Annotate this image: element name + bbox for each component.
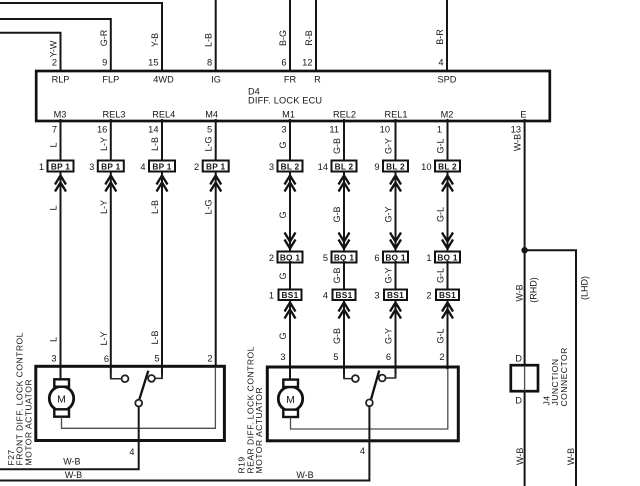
wire col8 BQ1 to BS1 <box>447 263 449 290</box>
connector J4 junction box <box>511 365 538 391</box>
svg-text:4: 4 <box>140 162 145 172</box>
svg-text:5: 5 <box>323 253 328 263</box>
svg-text:4: 4 <box>323 291 328 301</box>
svg-text:G-B: G-B <box>332 328 342 344</box>
svg-text:G-L: G-L <box>436 268 446 283</box>
wire SPD feed from top <box>446 0 448 71</box>
svg-text:9: 9 <box>102 58 107 68</box>
svg-text:W-B: W-B <box>515 448 525 465</box>
svg-text:1: 1 <box>269 291 274 301</box>
svg-text:BP 1: BP 1 <box>51 161 70 171</box>
svg-text:L-B: L-B <box>150 137 160 151</box>
wire col7 BQ1 to BS1 <box>395 263 397 290</box>
label F27 FRONT DIFF LOCK CONTROL MOTOR ACTUATOR <box>6 332 34 465</box>
svg-text:14: 14 <box>318 162 328 172</box>
svg-text:R-B: R-B <box>304 30 314 46</box>
svg-text:16: 16 <box>97 125 107 135</box>
svg-text:E: E <box>520 109 526 119</box>
wire col5 BL2 to BQ1 <box>289 172 291 252</box>
connector BQ1 col5 <box>278 252 303 263</box>
svg-text:MOTOR ACTUATOR: MOTOR ACTUATOR <box>23 379 33 466</box>
svg-text:M2: M2 <box>441 109 454 119</box>
switch lever <box>139 371 148 400</box>
wire FLP feed from left edge <box>0 19 111 71</box>
svg-text:L-Y: L-Y <box>99 331 109 345</box>
svg-text:MOTOR ACTUATOR: MOTOR ACTUATOR <box>254 387 264 474</box>
svg-text:BS1: BS1 <box>336 290 353 300</box>
svg-text:FR: FR <box>284 74 297 84</box>
wire col2 BP1 to actuator <box>110 172 112 379</box>
svg-text:L: L <box>49 142 59 147</box>
svg-text:DIFF. LOCK ECU: DIFF. LOCK ECU <box>248 95 322 105</box>
svg-text:9: 9 <box>374 162 379 172</box>
wire M3 to BP1 <box>60 119 62 161</box>
svg-text:L-Y: L-Y <box>99 200 109 214</box>
svg-text:3: 3 <box>374 291 379 301</box>
svg-text:L: L <box>49 205 59 210</box>
svg-text:5: 5 <box>154 354 159 364</box>
svg-text:M3: M3 <box>54 109 67 119</box>
box front actuator F27 <box>36 366 225 440</box>
svg-text:7: 7 <box>52 125 57 135</box>
wire col1 BP1 to actuator <box>60 172 62 382</box>
svg-text:6: 6 <box>281 58 286 68</box>
svg-text:BL 2: BL 2 <box>335 161 354 171</box>
connector BP1 col2 <box>98 161 124 172</box>
svg-text:W-B: W-B <box>296 470 313 480</box>
contact circle left <box>122 375 129 382</box>
svg-text:10: 10 <box>380 125 390 135</box>
svg-text:3: 3 <box>89 162 94 172</box>
svg-text:L-Y: L-Y <box>99 137 109 151</box>
connector BP1 col3 <box>149 161 175 172</box>
svg-text:L-B: L-B <box>150 200 160 214</box>
svg-text:3: 3 <box>281 125 286 135</box>
arrows up below row1 <box>55 176 453 192</box>
svg-text:L-B: L-B <box>150 330 160 344</box>
label R19 REAR DIFF LOCK CONTROL MOTOR ACTUATOR <box>237 346 265 473</box>
svg-text:BP 1: BP 1 <box>152 161 171 171</box>
label J4 JUNCTION CONNECTOR <box>542 347 570 406</box>
svg-text:G-B: G-B <box>332 138 342 154</box>
svg-text:(LHD): (LHD) <box>580 276 590 300</box>
connector BS1 col6 <box>333 290 356 301</box>
svg-text:G-L: G-L <box>436 138 446 153</box>
svg-text:G-Y: G-Y <box>384 138 394 154</box>
svg-text:RLP: RLP <box>52 74 70 84</box>
wire RLP feed from left edge <box>0 33 61 71</box>
wire E W-B down <box>524 119 526 365</box>
wire REL3 to BP1 <box>110 119 112 161</box>
svg-text:G-R: G-R <box>99 29 109 46</box>
svg-text:D: D <box>515 396 522 406</box>
svg-text:G-B: G-B <box>332 267 342 283</box>
svg-text:R: R <box>314 74 321 84</box>
svg-text:15: 15 <box>148 58 158 68</box>
svg-text:6: 6 <box>104 354 109 364</box>
wire REL1 to BL2 <box>395 119 397 161</box>
svg-text:IG: IG <box>211 74 221 84</box>
svg-text:BS1: BS1 <box>282 290 299 300</box>
wire M4 to BP1 <box>215 119 217 161</box>
svg-text:REL2: REL2 <box>333 109 356 119</box>
svg-text:5: 5 <box>207 125 212 135</box>
connector BL2 col6 <box>332 161 357 172</box>
svg-text:M1: M1 <box>282 109 295 119</box>
svg-text:L: L <box>49 337 59 342</box>
svg-text:BP 1: BP 1 <box>101 161 120 171</box>
svg-text:3: 3 <box>269 162 274 172</box>
svg-text:G: G <box>278 141 288 148</box>
contact jog pin6 rear <box>386 374 396 378</box>
connector BP1 col4 <box>203 161 229 172</box>
svg-text:5: 5 <box>333 352 338 362</box>
switch rear actuator <box>344 371 396 407</box>
svg-text:REL1: REL1 <box>385 109 408 119</box>
switch front actuator <box>111 371 162 407</box>
wire col3 BP1 to actuator <box>161 172 163 379</box>
svg-text:2: 2 <box>269 253 274 263</box>
svg-text:4WD: 4WD <box>153 74 174 84</box>
svg-text:(RHD): (RHD) <box>529 277 539 303</box>
svg-text:2: 2 <box>194 162 199 172</box>
wire E below J4 <box>524 391 526 486</box>
svg-text:4: 4 <box>129 447 134 457</box>
svg-text:M4: M4 <box>205 109 218 119</box>
svg-text:L-G: L-G <box>204 136 214 151</box>
svg-text:BS1: BS1 <box>387 290 404 300</box>
svg-text:6: 6 <box>386 352 391 362</box>
svg-text:G: G <box>278 332 288 339</box>
svg-text:BS1: BS1 <box>439 290 456 300</box>
svg-text:Y-B: Y-B <box>150 33 160 47</box>
svg-text:G-B: G-B <box>332 206 342 222</box>
wire R feed from top <box>315 0 317 71</box>
svg-text:B-G: B-G <box>278 30 288 46</box>
svg-text:BQ 1: BQ 1 <box>385 252 406 262</box>
connector BL2 col5 <box>278 161 303 172</box>
svg-text:BL 2: BL 2 <box>281 161 300 171</box>
wire REL2 to BL2 <box>343 119 345 161</box>
svg-text:B-R: B-R <box>435 29 445 45</box>
wire through J4 <box>524 366 526 391</box>
pivot circle <box>135 400 142 407</box>
arrows down above BQ1 <box>285 233 454 249</box>
wire col6 BQ1 to BS1 <box>343 263 345 290</box>
svg-text:W-B: W-B <box>514 284 524 301</box>
switch lever rear <box>371 371 379 400</box>
wire LHD branch <box>525 250 576 486</box>
wire REL4 to BP1 <box>161 119 163 161</box>
svg-text:W-B: W-B <box>65 470 82 480</box>
motor M rear <box>278 380 302 417</box>
svg-text:2: 2 <box>439 352 444 362</box>
wire FR feed from top <box>289 0 291 71</box>
svg-text:3: 3 <box>280 352 285 362</box>
wire col7 BS1 to rear actuator <box>395 300 397 378</box>
svg-text:2: 2 <box>52 58 57 68</box>
svg-text:12: 12 <box>302 58 312 68</box>
svg-text:G: G <box>278 272 288 279</box>
contact jog pin5 <box>155 374 162 378</box>
connector BS1 col7 <box>384 290 407 301</box>
svg-text:13: 13 <box>511 125 521 135</box>
connector BP1 col1 <box>48 161 74 172</box>
inner motor loop front <box>62 368 216 429</box>
junction node E branch <box>521 247 527 253</box>
wire col6 BS1 to rear actuator <box>343 300 345 378</box>
connector BS1 col8 <box>436 290 459 301</box>
svg-text:G-Y: G-Y <box>384 267 394 283</box>
motor M front <box>49 379 73 416</box>
svg-text:4: 4 <box>438 58 443 68</box>
arrows up below BS1 <box>285 303 454 319</box>
inner motor loop rear <box>291 370 448 429</box>
svg-text:M: M <box>286 394 295 406</box>
svg-text:11: 11 <box>329 125 339 135</box>
wire M2 to BL2 <box>447 119 449 161</box>
box rear actuator R19 <box>267 367 458 441</box>
svg-text:3: 3 <box>51 354 56 364</box>
svg-text:6: 6 <box>374 253 379 263</box>
svg-text:1: 1 <box>437 125 442 135</box>
svg-text:G-L: G-L <box>436 328 446 343</box>
svg-text:1: 1 <box>39 162 44 172</box>
svg-text:W-B: W-B <box>513 134 523 151</box>
svg-text:G-Y: G-Y <box>384 328 394 344</box>
contact circle right rear <box>379 375 386 382</box>
svg-text:L-B: L-B <box>204 33 214 47</box>
svg-text:14: 14 <box>148 125 158 135</box>
svg-text:G-Y: G-Y <box>384 206 394 222</box>
connector BL2 col8 <box>435 161 460 172</box>
contact circle right <box>148 375 155 382</box>
connector BQ1 col6 <box>332 252 357 263</box>
wire IG feed from top <box>215 0 217 71</box>
svg-text:W-B: W-B <box>63 457 80 467</box>
svg-text:G: G <box>278 211 288 218</box>
svg-text:G-L: G-L <box>436 207 446 222</box>
connector BS1 col5 <box>279 290 302 301</box>
connector BL2 col7 <box>383 161 408 172</box>
svg-text:SPD: SPD <box>438 74 457 84</box>
svg-text:BQ 1: BQ 1 <box>280 252 301 262</box>
svg-text:BL 2: BL 2 <box>438 161 457 171</box>
wire 4WD feed from left edge <box>0 3 162 71</box>
svg-text:L-G: L-G <box>204 199 214 214</box>
wire front pin4 W-B <box>0 407 139 470</box>
svg-text:1: 1 <box>426 253 431 263</box>
wire col7 BL2 to BQ1 <box>395 172 397 252</box>
svg-text:4: 4 <box>360 446 365 456</box>
connector BQ1 col8 <box>435 252 460 263</box>
contact circle left rear <box>352 375 359 382</box>
contact jog pin6 <box>111 374 122 379</box>
wire col5 BS1 to rear actuator <box>289 300 291 383</box>
wire col8 BL2 to BQ1 <box>447 172 449 252</box>
svg-text:BQ 1: BQ 1 <box>437 252 458 262</box>
svg-text:CONNECTOR: CONNECTOR <box>559 347 569 406</box>
wire col5 BQ1 to BS1 <box>289 263 291 290</box>
contact jog pin5 rear <box>344 374 352 379</box>
wire col4 BP1 to actuator top <box>215 172 217 368</box>
wire col6 BL2 to BQ1 <box>343 172 345 252</box>
svg-text:W-B: W-B <box>566 448 576 465</box>
svg-text:M: M <box>57 394 66 406</box>
svg-text:BP 1: BP 1 <box>206 161 225 171</box>
wire col8 BS1 to rear actuator top <box>447 300 449 370</box>
svg-text:D: D <box>515 353 522 363</box>
connector BQ1 col7 <box>383 252 408 263</box>
svg-text:REL3: REL3 <box>103 109 126 119</box>
svg-text:BQ 1: BQ 1 <box>334 252 355 262</box>
svg-text:FLP: FLP <box>102 74 119 84</box>
svg-text:2: 2 <box>426 291 431 301</box>
svg-text:10: 10 <box>421 162 431 172</box>
svg-text:8: 8 <box>207 58 212 68</box>
wire M1 to BL2 <box>289 119 291 161</box>
svg-text:BL 2: BL 2 <box>386 161 405 171</box>
wire rear pin4 W-B <box>0 406 369 480</box>
svg-text:2: 2 <box>207 354 212 364</box>
op ECU box D4 <box>36 71 550 121</box>
svg-text:REL4: REL4 <box>152 109 175 119</box>
pivot circle rear <box>366 399 373 406</box>
svg-text:Y-W: Y-W <box>49 40 59 57</box>
